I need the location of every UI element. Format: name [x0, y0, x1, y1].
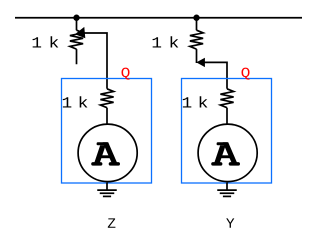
ammeter U2 circle (right) — [198, 124, 257, 182]
instrument box right (blue) — [182, 79, 272, 184]
instrument box left (blue) — [62, 79, 152, 184]
ammeter U2 letter A — [211, 142, 240, 165]
wire from R1 wiper to left box — [85, 33, 108, 89]
wiper arrow of R2 — [196, 58, 205, 67]
potentiometer R2 1k (right) — [190, 18, 203, 63]
ammeter U1 circle (left) — [78, 124, 137, 182]
potentiometer R1 1k (left) — [70, 18, 83, 64]
wire from R2 wiper to right box — [205, 62, 228, 88]
node label Q right (red) — [242, 68, 250, 80]
resistor 1k inside right box — [220, 89, 233, 124]
node junction dot left — [73, 15, 79, 21]
value label 1 k inside left box — [63, 97, 72, 107]
net label Y — [226, 218, 234, 227]
ammeter U1 letter A — [91, 142, 120, 165]
value label 1 k of R2 — [153, 37, 162, 47]
value label 1 k inside right box — [183, 97, 192, 107]
wiper arrow of R1 — [75, 27, 85, 38]
node junction dot right — [193, 15, 199, 21]
node label Q left (red) — [122, 68, 130, 80]
wire top bus — [15, 17, 302, 19]
ground symbol right — [217, 183, 237, 197]
value label 1 k of R1 — [33, 37, 42, 47]
ground symbol left — [97, 183, 117, 197]
net label Z — [108, 218, 116, 227]
resistor 1k inside left box — [100, 89, 113, 124]
